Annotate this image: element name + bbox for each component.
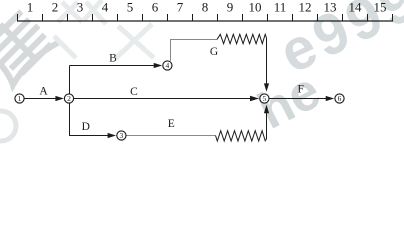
wire: node2 down connector xyxy=(69,103,71,136)
svg-text:12: 12 xyxy=(299,0,312,15)
node 1 xyxy=(15,94,24,103)
node 6 xyxy=(335,94,344,103)
node 5 xyxy=(260,94,269,103)
svg-text:D: D xyxy=(82,121,90,133)
svg-text:7: 7 xyxy=(177,0,184,15)
activity D arrow xyxy=(69,135,110,137)
svg-text:4: 4 xyxy=(102,0,109,15)
svg-text:B: B xyxy=(109,52,117,64)
svg-text:G: G xyxy=(210,46,218,58)
svg-text:E: E xyxy=(168,118,175,130)
svg-text:9: 9 xyxy=(227,0,234,15)
svg-text:1: 1 xyxy=(18,94,22,103)
activity C arrow xyxy=(74,98,252,100)
svg-text:14: 14 xyxy=(349,0,363,15)
svg-text:15: 15 xyxy=(374,0,387,15)
svg-text:6: 6 xyxy=(152,0,159,15)
time ruler baseline xyxy=(17,20,393,22)
ruler ticks xyxy=(18,14,393,21)
free float wave top (G) xyxy=(217,34,267,43)
svg-text:11: 11 xyxy=(274,0,287,15)
wire: down arrow into node5 xyxy=(266,38,268,85)
svg-text:F: F xyxy=(297,84,303,96)
free float wave bottom (E) xyxy=(216,131,267,141)
activity A arrow xyxy=(24,98,57,100)
svg-text:6: 6 xyxy=(338,94,342,103)
wire: up arrow into node5 xyxy=(266,112,268,139)
wire: node2 up connector xyxy=(69,66,71,95)
svg-text:5: 5 xyxy=(263,94,267,103)
activity F arrow xyxy=(270,98,328,100)
node 4 xyxy=(163,61,172,70)
watermark: faint streak bottom-left xyxy=(0,111,16,141)
svg-text:2: 2 xyxy=(67,94,71,103)
svg-text:3: 3 xyxy=(120,131,124,140)
svg-text:C: C xyxy=(130,86,138,98)
node 2 xyxy=(64,94,73,103)
watermark: big rotated glyph top-left xyxy=(0,4,58,86)
svg-text:13: 13 xyxy=(324,0,337,15)
svg-text:2: 2 xyxy=(52,0,59,15)
svg-text:8: 8 xyxy=(202,0,209,15)
activity B arrow xyxy=(70,65,156,67)
ruler numbers 1-15 xyxy=(27,0,387,15)
svg-text:10: 10 xyxy=(249,0,262,15)
wire: node4 riser and G solid line xyxy=(171,40,218,61)
svg-text:A: A xyxy=(39,86,48,98)
activity E line xyxy=(126,135,215,137)
watermark: faint strokes top-middle xyxy=(54,0,154,58)
svg-text:4: 4 xyxy=(166,61,170,70)
svg-text:3: 3 xyxy=(77,0,84,15)
node 3 xyxy=(117,131,126,140)
svg-text:5: 5 xyxy=(127,0,134,15)
svg-text:1: 1 xyxy=(27,0,34,15)
